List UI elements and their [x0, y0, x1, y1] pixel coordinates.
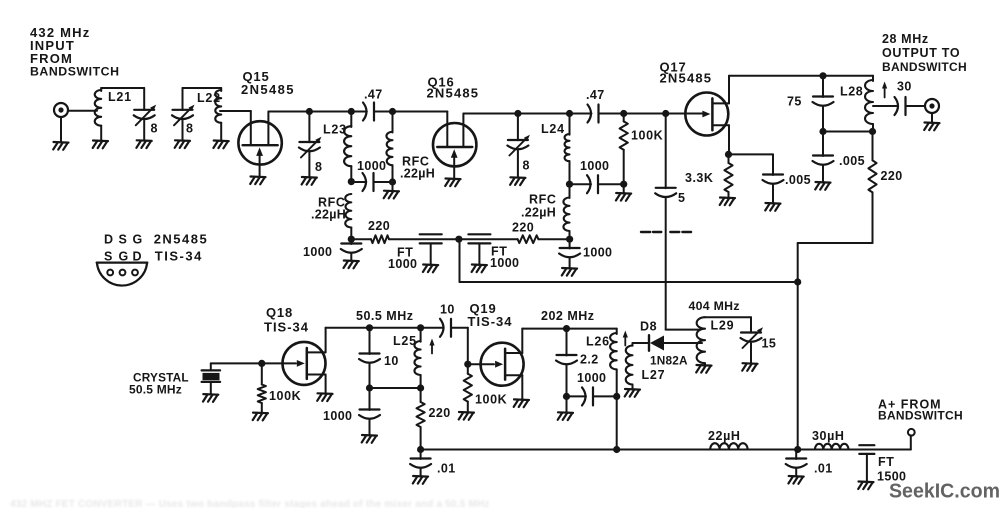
node junction rail mid — [613, 446, 620, 453]
svg-text:L28: L28 — [840, 85, 863, 99]
label 1000 (osc bypass) — [323, 409, 352, 423]
svg-text:.005: .005 — [839, 154, 865, 168]
node junction Q18 gate — [258, 360, 265, 367]
wire L22 to Q15 gate-side — [220, 110, 251, 112]
label Q19 type TIS-34 — [468, 314, 513, 329]
shield dashes — [641, 231, 691, 233]
svg-text:BANDSWITCH: BANDSWITCH — [878, 409, 963, 423]
label L28 — [840, 85, 863, 99]
capacitor .47 (first) — [363, 103, 374, 121]
svg-text:D8: D8 — [640, 320, 657, 334]
inductor L24 — [565, 134, 570, 161]
label RFC (Q15 drain side) line1 — [318, 196, 346, 210]
ground trimmer (Q16 drain) — [510, 177, 525, 185]
wire RFC1 node to Q16 — [393, 111, 448, 113]
wire FT node to 220 right — [459, 238, 518, 240]
wire 220 osc bottom stem — [420, 427, 422, 450]
label 8 (Q16 drain trimmer) — [523, 159, 530, 173]
trimmer capacitor 8 (Q15 drain) — [299, 137, 322, 158]
capacitor 1000 (202 tank) — [582, 387, 593, 405]
ground 1000 right bypass — [562, 268, 577, 276]
svg-text:TIS-34: TIS-34 — [155, 249, 203, 264]
svg-text:50.5 MHz: 50.5 MHz — [129, 383, 182, 397]
ground FT 1500 — [858, 482, 873, 490]
node junction L26 bottom — [613, 393, 620, 400]
inductor 22uH — [710, 443, 747, 449]
svg-text:2N5485: 2N5485 — [660, 71, 713, 86]
node junction L23 bottom — [348, 178, 355, 185]
wire RFC2 bottom stem — [350, 228, 352, 240]
svg-text:TIS-34: TIS-34 — [468, 314, 513, 329]
svg-text:10: 10 — [440, 303, 455, 317]
wire 3.3K bottom stem — [728, 192, 730, 198]
label 8 (Q15 drain trimmer) — [315, 160, 322, 174]
label .47 (second) — [586, 88, 605, 102]
label 202 MHz — [541, 309, 595, 323]
ground output connector — [924, 123, 939, 131]
ground 3.3K — [720, 198, 735, 206]
svg-text:L23: L23 — [323, 123, 347, 137]
svg-text:8: 8 — [151, 122, 158, 136]
label .01 (rail left) — [437, 462, 456, 476]
svg-text:8: 8 — [315, 160, 322, 174]
wire Q16 to trimmer node — [463, 113, 518, 115]
label L29 — [711, 319, 735, 333]
label RFC (Q16 gate side) line1 — [402, 155, 430, 169]
ground L27 — [625, 389, 640, 397]
label CRYSTAL line2 — [129, 383, 182, 397]
svg-text:D: D — [104, 233, 113, 247]
label FT (right) line2 — [490, 256, 519, 270]
svg-text:220: 220 — [429, 406, 451, 420]
svg-text:.22µH: .22µH — [400, 167, 435, 181]
wire Q15 to node — [268, 111, 309, 113]
svg-text:432 MHZ FET CONVERTER — Uses: 432 MHZ FET CONVERTER — Uses two bandpas… — [10, 499, 490, 508]
label 8 (L21 tank) — [151, 122, 158, 136]
wire trimmer top (L21 tank) — [143, 88, 145, 110]
wire trimmer bottom (Q15 drain) — [308, 153, 310, 178]
capacitor .005 (output side) — [813, 156, 834, 165]
wire L29 top — [705, 316, 751, 318]
svg-text:1000: 1000 — [580, 159, 609, 173]
wire supply run to right — [460, 281, 798, 283]
svg-text:.47: .47 — [364, 88, 383, 102]
ground 100K Q18 — [253, 413, 268, 421]
node junction 100K bottom — [620, 181, 627, 188]
svg-text:TIS-34: TIS-34 — [264, 320, 309, 335]
svg-text:2N5485: 2N5485 — [154, 232, 209, 247]
resistor 220 (left feed) — [371, 235, 389, 243]
wire Q17 source down — [728, 125, 730, 154]
wire right bypass bottom — [569, 258, 571, 269]
inductor L23 — [344, 126, 351, 166]
wire rail left cap stem — [420, 450, 422, 460]
svg-text:8: 8 — [523, 159, 530, 173]
svg-text:220: 220 — [881, 169, 903, 183]
label FT 1500 line1 — [878, 455, 894, 469]
wire L26 bottom stem — [616, 369, 618, 396]
inductor L22 — [215, 90, 221, 123]
label input line3 — [30, 51, 73, 66]
label Q15 — [243, 69, 270, 84]
label Q17 — [660, 60, 687, 75]
svg-text:1000: 1000 — [577, 371, 606, 385]
case pin 1 — [107, 270, 113, 276]
svg-text:.005: .005 — [785, 173, 811, 187]
tuning arrow L25 — [429, 339, 434, 354]
svg-text:.22µH: .22µH — [521, 206, 556, 220]
wire supply tap down — [459, 239, 461, 282]
svg-text:100K: 100K — [475, 393, 507, 407]
ground 100K bottom — [616, 193, 631, 201]
svg-text:1000: 1000 — [583, 246, 612, 260]
label FT (left) line2 — [388, 257, 417, 271]
node junction 75 bottom — [819, 128, 826, 135]
capacitor .01 (rail left) — [410, 459, 431, 468]
wire rail to A+ terminal — [910, 435, 912, 449]
wire .005 top stem — [772, 154, 774, 175]
node junction L24 — [566, 110, 573, 117]
wire trimmer 15 bottom stem — [750, 343, 752, 363]
ground 100K Q19 — [459, 412, 474, 420]
RFC choke coil (Q16 gate side) — [386, 132, 392, 166]
wire 220 right to node — [538, 238, 569, 240]
inductor L21 — [95, 90, 101, 126]
wire L22 bottom — [220, 123, 222, 141]
trimmer capacitor 8 (Q16 drain) — [507, 135, 530, 156]
wire Q15 right stub — [267, 112, 269, 146]
wire mixer node to Q17 gate — [666, 113, 704, 115]
label Q15 type 2N5485 — [241, 82, 295, 97]
wire RFC1 top stem — [392, 112, 394, 133]
wire Q18 source down — [325, 375, 327, 394]
wire output connector to ground — [931, 113, 933, 123]
svg-text:30µH: 30µH — [812, 429, 845, 443]
wire Q17 source to cap .005 — [729, 153, 774, 155]
svg-text:L27: L27 — [642, 368, 666, 382]
watermark SeekIC.com — [889, 480, 1000, 503]
wire 220 osc top stem — [420, 388, 422, 402]
transistor Q19 TIS-34 — [481, 343, 524, 386]
ground crystal — [203, 394, 218, 402]
label A+ FROM — [878, 398, 942, 412]
ground L21 — [93, 141, 108, 149]
svg-text:OUTPUT TO: OUTPUT TO — [882, 46, 960, 60]
svg-text:1000: 1000 — [357, 159, 386, 173]
svg-text:.01: .01 — [814, 462, 833, 476]
wire trimmer bottom (L22 tank) — [182, 120, 184, 140]
label 2.2 — [580, 353, 599, 367]
legend letter S — [119, 233, 127, 247]
label .005 (source bypass) — [785, 173, 811, 187]
wire Q18 drain to 50.5 node — [326, 327, 370, 329]
label L24 — [541, 122, 565, 136]
label 3.3K — [685, 171, 713, 185]
wire trimmer bottom (Q16 drain) — [517, 151, 519, 178]
wire supply rail — [421, 449, 911, 451]
wire .005 bottom stem — [772, 184, 774, 203]
label 220 (output return) — [881, 169, 903, 183]
node junction Q17 source — [725, 151, 732, 158]
capacitor 30 (output coupling) — [895, 97, 906, 115]
legend TIS-34 — [155, 249, 203, 264]
wire trimmer node to L24 node — [518, 113, 570, 115]
wire L24 node to cap .47 second — [570, 113, 592, 115]
ground .01 rail left — [413, 476, 428, 484]
label 404 MHz — [689, 299, 740, 313]
wire Q17 drain up — [728, 76, 730, 104]
svg-text:10: 10 — [384, 354, 399, 368]
feedthrough capacitor FT 1500 — [859, 445, 874, 481]
legend letter D — [104, 233, 113, 247]
ground 1000 osc bypass — [362, 435, 377, 443]
wire L26 top stem — [616, 329, 618, 334]
wire 100K Q19 bottom stem — [467, 402, 469, 412]
wire 220 output down — [872, 192, 874, 243]
capacitor 1000 (left bypass) — [341, 244, 362, 253]
label 100K (Q17 gate) — [631, 129, 663, 143]
svg-text:404 MHz: 404 MHz — [689, 299, 740, 313]
wire L24 top stem — [569, 114, 571, 135]
wire rail right cap stem — [795, 450, 797, 477]
svg-text:202 MHz: 202 MHz — [541, 309, 595, 323]
ground RFC1 — [384, 191, 399, 199]
ground FT right — [472, 265, 487, 273]
capacitor .005 (source bypass) — [763, 175, 784, 184]
label 1000 (left bypass) — [303, 245, 332, 259]
inductor L29 — [697, 317, 705, 363]
wire cap 30 to output connector — [906, 105, 926, 107]
svg-text:1000: 1000 — [388, 257, 417, 271]
node junction L25 bottom — [417, 384, 424, 391]
label .005 (output side) — [839, 154, 865, 168]
wire L25 node to cap 10 coupling — [421, 327, 444, 329]
legend 2N5485 — [154, 232, 209, 247]
wire 100K bottom to ground — [623, 184, 625, 193]
inductor L27 — [626, 346, 633, 385]
wire osc bypass bottom stem — [369, 419, 371, 435]
ground Q15 source — [250, 177, 265, 185]
wire bypass cap top — [350, 239, 352, 244]
wire L28 tap to cap 30 — [873, 105, 898, 107]
wire 220 to FT node — [389, 238, 459, 240]
label L25 — [393, 334, 417, 348]
label RFC (L24 side) line1 — [529, 193, 557, 207]
capacitor 1000 (between L23 and RFC1) — [363, 173, 374, 191]
ground FT left — [423, 265, 438, 273]
svg-text:.01: .01 — [437, 462, 456, 476]
ground Q19 source — [514, 399, 529, 407]
wire input connector to ground — [60, 118, 62, 143]
tuning arrow L26 — [623, 331, 628, 346]
wire L28 bottom to 75 bottom — [823, 131, 873, 133]
svg-text:8: 8 — [186, 122, 193, 136]
label 432 MHz input line1 — [30, 25, 90, 40]
wire RFC1 bottom stem — [392, 165, 394, 182]
label 30 — [897, 80, 912, 94]
svg-text:BANDSWITCH: BANDSWITCH — [30, 65, 120, 79]
wire .005 output top stem — [822, 132, 824, 157]
wire 2.2 bottom to cap 1000 — [567, 395, 587, 397]
capacitor 1000 (L24/100K) — [587, 175, 598, 193]
wire L28 bottom stem — [872, 124, 874, 132]
svg-text:L22: L22 — [197, 91, 221, 105]
wire Q17 drain to output network — [729, 75, 873, 77]
ground 202 tank — [558, 412, 573, 420]
wire Q18 drain up — [325, 328, 327, 353]
svg-text:15: 15 — [762, 337, 777, 351]
svg-text:L26: L26 — [586, 335, 610, 349]
wire trimmer 15 top stem — [750, 317, 752, 333]
wire L29 bottom stem — [704, 363, 706, 365]
node junction RFC3 bottom — [566, 236, 573, 243]
wire 75 bottom stem — [822, 106, 824, 132]
label 28 MHz out line3 — [882, 60, 967, 74]
label 1N82A — [650, 354, 688, 368]
wire L27 bottom stem — [632, 385, 634, 390]
svg-text:220: 220 — [512, 221, 534, 235]
svg-text:3.3K: 3.3K — [685, 171, 713, 185]
capacitor 2.2 — [556, 355, 577, 364]
node junction supply run — [794, 278, 801, 285]
svg-text:SeekIC.com: SeekIC.com — [889, 480, 1000, 503]
svg-text:1000: 1000 — [323, 409, 352, 423]
node junction supply tap — [455, 236, 462, 243]
RFC choke coil .22uH (Q15 drain side) — [345, 194, 351, 228]
faint caption — [10, 499, 490, 508]
label Q18 type TIS-34 — [264, 320, 309, 335]
wire bypass cap bottom — [350, 253, 352, 261]
label 15 (trimmer) — [762, 337, 777, 351]
wire L25 bottom stem — [420, 375, 422, 388]
wire Q15 left stub — [250, 111, 252, 145]
resistor 100K (Q17 gate) — [620, 121, 628, 149]
case pin 3 — [132, 270, 138, 276]
wire 3.3K top stem — [728, 154, 730, 163]
wire L25 top stem — [420, 328, 422, 342]
label 100K (Q19 gate) — [475, 393, 507, 407]
wire trimmer top (Q15 drain) — [308, 112, 310, 143]
crystal Y1 — [202, 370, 221, 382]
wire cap .47 second to 100K node — [599, 113, 624, 115]
legend letter D2 — [133, 250, 142, 264]
capacitor .01 (rail right) — [786, 459, 807, 468]
svg-text:1000: 1000 — [303, 245, 332, 259]
wire node to L23 node — [309, 111, 351, 113]
wire 202 node to L26 — [567, 328, 617, 330]
wire 75 top stem — [822, 76, 824, 97]
capacitor 10 (osc feedback) — [359, 354, 380, 363]
node junction 202 MHz — [563, 325, 570, 332]
wire L27 top corner — [633, 343, 650, 346]
trimmer capacitor 8 (L21 tank) — [134, 105, 157, 126]
wire crystal to Q18 gate — [211, 362, 296, 364]
wire supply drop to rail — [797, 243, 799, 450]
label .01 (rail right) — [814, 462, 833, 476]
svg-text:75: 75 — [787, 95, 802, 109]
ground 1000 left bypass — [344, 261, 359, 269]
feedthrough capacitor FT 1000 (right) — [468, 234, 490, 264]
node junction 220 left — [348, 236, 355, 243]
ground trimmer (Q15 drain) — [302, 177, 317, 185]
inductor L26 — [610, 333, 617, 369]
trimmer capacitor 8 (L22 tank) — [172, 105, 195, 126]
RFC choke coil .22uH (L24 side) — [563, 198, 569, 232]
wire oscillator link to L29 — [666, 329, 701, 331]
wire right bypass top — [569, 239, 571, 248]
wire RFC3 bottom stem — [569, 231, 571, 239]
node junction L25 top — [417, 324, 424, 331]
inductor L25 — [414, 341, 420, 375]
wire RFC1 bottom to ground — [392, 182, 394, 191]
input connector J1 — [54, 103, 68, 117]
label Q16 type 2N5485 — [427, 86, 480, 101]
svg-text:30: 30 — [897, 80, 912, 94]
terminal A+ — [908, 429, 915, 436]
ground input connector — [53, 142, 68, 150]
legend letter G — [133, 233, 143, 247]
label A+ BANDSWITCH — [878, 409, 963, 423]
label FT (right) line1 — [491, 245, 507, 259]
wire 220 left — [351, 238, 371, 240]
label 30uH — [812, 429, 845, 443]
wire L24 bottom stem — [569, 161, 571, 184]
wire L23 top stem — [350, 112, 352, 128]
svg-text:G: G — [119, 250, 129, 264]
node junction RFC1 bottom — [389, 178, 396, 185]
wire Q19 drain to 202 node — [522, 328, 566, 330]
label Q18 — [266, 305, 293, 320]
label 75 — [787, 95, 802, 109]
ground Q16 source — [445, 179, 460, 187]
diode D8 1N82A — [649, 335, 664, 351]
svg-text:L21: L21 — [108, 90, 132, 104]
label RFC (Q15 drain side) line2 — [311, 208, 346, 222]
transistor Q15 2N5485 — [238, 121, 281, 176]
resistor 3.3K — [724, 163, 732, 192]
wire rail left cap bottom — [420, 468, 422, 476]
wire RFC3 top stem — [569, 184, 571, 198]
label 10 (coupling) — [440, 303, 455, 317]
node junction Q19 gate — [464, 361, 471, 368]
svg-text:Q18: Q18 — [266, 305, 293, 320]
wire node to cap .47 — [351, 111, 367, 113]
node junction L28 bottom — [869, 128, 876, 135]
wire cap 10 coupling to Q19 corner — [451, 328, 468, 364]
node junction 100K top — [620, 110, 627, 117]
wire D8 to L29 — [664, 342, 702, 344]
label Q16 — [428, 75, 455, 90]
wire crystal bottom — [210, 382, 212, 394]
wire cap 1000 to L26 bottom — [593, 395, 617, 397]
svg-text:.22µH: .22µH — [311, 208, 346, 222]
legend letter G2 — [119, 250, 129, 264]
svg-text:L29: L29 — [711, 319, 735, 333]
label Q19 — [470, 301, 497, 316]
svg-text:S: S — [119, 233, 127, 247]
wire L23 bottom stem — [350, 166, 352, 181]
wire 2.2 bottom to ground — [566, 396, 568, 412]
label L23 — [323, 123, 347, 137]
label 8 (L22 tank) — [186, 122, 193, 136]
svg-text:2N5485: 2N5485 — [241, 82, 295, 97]
node junction rail left end — [417, 446, 424, 453]
wire L22 top — [220, 88, 222, 91]
transistor case outline — [97, 263, 148, 286]
label D8 — [640, 320, 657, 334]
capacitor 75 — [813, 97, 834, 106]
label CRYSTAL line1 — [133, 371, 189, 385]
